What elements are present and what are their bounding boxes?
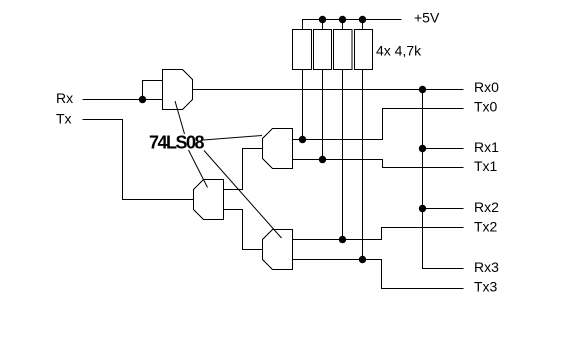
junction pullup4 / U1D input B [359,256,366,263]
resistor pack R1 element 2 [314,30,332,70]
resistor pack R1 element 4 [355,30,373,70]
wire resistor4 bottom lead to gate U1D input B [362,70,364,260]
svg-text:+5V: +5V [414,10,440,26]
svg-text:Tx1: Tx1 [474,158,498,174]
junction +5V rail / resistor4 [359,16,366,23]
wire Rx2 line [423,208,464,210]
leader line to U1D [204,151,282,239]
junction pullup1 / U1B input A [299,136,306,143]
junction node Rx branch [139,96,146,103]
wire Rx branch to U1A upper input [143,81,163,100]
and-gate U1C body [194,180,224,220]
resistor pack R1 element 3 [334,30,353,70]
resistor pack R1 (4x 4,7k) element 1 [293,30,312,70]
wire stub resistor2 top [322,20,324,30]
wire stub resistor4 top [362,20,364,30]
leader line to U1A [175,101,185,134]
svg-text:Tx: Tx [56,111,72,127]
wire U1C upper input from U1B output [224,149,263,190]
wire resistor1 bottom lead to gate U1B input A [302,70,304,140]
junction node Rx2 bus [419,205,426,212]
wire Tx input line down and right to U1C output [83,120,194,200]
svg-text:Rx1: Rx1 [474,139,499,155]
wire U1D lower input to Tx3 [293,260,464,289]
svg-text:Tx3: Tx3 [474,278,498,294]
svg-text:Tx2: Tx2 [474,218,498,234]
junction node Rx1 bus [419,145,426,152]
junction node Rx0 bus [419,86,426,93]
and-gate U1D body [263,230,293,270]
wire Rx bus vertical to Rx3 [423,90,464,269]
wire U1B upper input to Tx0 [293,109,464,140]
leader line to U1B [204,136,263,141]
svg-text:Tx0: Tx0 [474,98,498,114]
svg-text:Rx2: Rx2 [474,199,499,215]
wire stub resistor3 top [342,20,344,30]
and-gate U1B body [263,129,293,169]
svg-text:74LS08: 74LS08 [149,132,205,152]
junction pullup2 / U1B input B [319,156,326,163]
wire +5V rail [303,20,402,30]
svg-text:Rx: Rx [56,90,73,106]
wire U1A output to Rx0 [193,89,464,91]
wire U1C lower input from U1D output [224,210,263,250]
junction +5V rail / resistor3 [339,16,346,23]
wire U1D upper input to Tx2 [293,228,464,240]
svg-text:4x 4,7k: 4x 4,7k [376,42,422,58]
wire Rx1 line [423,148,464,150]
wire resistor2 bottom lead to gate U1B input B [322,70,324,160]
junction pullup3 / U1D input A [339,236,346,243]
junction +5V rail / resistor2 [319,16,326,23]
svg-text:Rx3: Rx3 [474,259,499,275]
leader line to U1C [189,150,208,188]
wire Rx input line [83,99,163,101]
and-gate U1A body [163,70,193,110]
wire resistor3 bottom lead to gate U1D input A [342,70,344,240]
wire U1B lower input to Tx1 [293,160,464,168]
svg-text:Rx0: Rx0 [474,79,499,95]
